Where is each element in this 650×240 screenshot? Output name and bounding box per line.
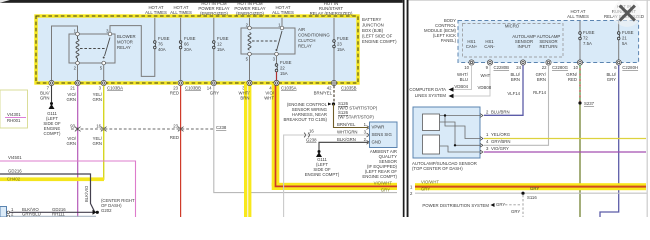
- BJB yellow highlight border (dashed): [36, 16, 358, 83]
- A/C relay switch: [277, 31, 282, 49]
- twisted pair marker G238: [304, 133, 309, 138]
- blower relay pin 3 (top right): [108, 32, 112, 36]
- wire relay pin5 down to C103BA pin 3: [103, 65, 105, 81]
- svg-text:15A: 15A: [217, 47, 225, 52]
- svg-text:GRY: GRY: [421, 187, 430, 192]
- svg-text:FUSE: FUSE: [217, 36, 229, 41]
- wire fuse22 down to row (start of highlighted VIO/WHT): [276, 72, 278, 81]
- ground G202: [93, 210, 97, 215]
- svg-text:WHT: WHT: [264, 96, 274, 101]
- svg-text:5A: 5A: [622, 41, 627, 46]
- dashed GRY branch down from S116: [522, 195, 524, 217]
- svg-text:(TOP CENTER OF DASH): (TOP CENTER OF DASH): [412, 166, 463, 171]
- svg-text:GRN: GRN: [40, 96, 50, 101]
- bottom left connector box: [0, 207, 7, 218]
- svg-text:VI4301: VI4301: [7, 112, 21, 117]
- ambient air quality sensor AAQS box: [370, 122, 398, 148]
- svg-text:WHT/GRN: WHT/GRN: [337, 130, 358, 135]
- svg-text:S237: S237: [584, 101, 595, 106]
- svg-text:VLF14: VLF14: [507, 91, 520, 96]
- fuse 76 40A: [154, 18, 156, 41]
- wire VI4501 pink horizontal then down: [0, 161, 136, 217]
- MICRO sub-box dashed: [463, 24, 564, 58]
- wire BRN/YEL dashed from C1035B pin 42: [333, 86, 335, 103]
- blower relay pin 2 (bottom left): [76, 61, 80, 65]
- sensor pin 1: [480, 137, 483, 141]
- svg-text:76: 76: [158, 42, 163, 47]
- svg-text:RELAY: RELAY: [298, 44, 312, 49]
- A/C relay pin 2 (top coil): [248, 26, 252, 30]
- svg-text:VIO/WHT: VIO/WHT: [421, 179, 439, 184]
- sensor pin 2: [480, 114, 483, 118]
- svg-text:GRY: GRY: [511, 209, 520, 214]
- wire A/C coil bottom to C1035A pin 37? no: pin down: [249, 56, 251, 81]
- svg-text:ENGINE COMPT): ENGINE COMPT): [305, 172, 340, 177]
- svg-text:BLK/GRN: BLK/GRN: [337, 137, 356, 142]
- svg-text:10: 10: [573, 65, 578, 70]
- svg-text:23: 23: [173, 124, 178, 129]
- svg-text:(ENERGIZED): (ENERGIZED): [236, 11, 264, 16]
- connector circles C1035A pins 37/45 over highlight: [247, 80, 279, 85]
- fuse 72 7.5A: [579, 21, 581, 32]
- wire BLK/GRN from AAQS GND to ground: [319, 142, 368, 150]
- svg-text:22: 22: [542, 65, 547, 70]
- wire BRN/YEL from S126 to AAQS VPWR: [334, 104, 369, 128]
- svg-text:VDB04: VDB04: [454, 84, 468, 89]
- svg-text:C103BB: C103BB: [185, 86, 201, 91]
- A/C relay pin 5 (bottom coil): [248, 52, 252, 56]
- right page faint right edge: [647, 0, 648, 217]
- svg-text:G238: G238: [306, 138, 317, 143]
- svg-text:66: 66: [184, 42, 189, 47]
- svg-text:GRY: GRY: [530, 186, 539, 191]
- svg-text:ENGINE COMPT): ENGINE COMPT): [362, 39, 397, 44]
- svg-text:RED: RED: [568, 77, 577, 82]
- svg-text:RETURN: RETURN: [540, 44, 558, 49]
- splice S126: [332, 102, 335, 105]
- svg-text:CLUTCH: CLUTCH: [298, 38, 315, 43]
- left margin component box VI4301/RH001: [0, 90, 28, 128]
- svg-text:VDB08: VDB08: [478, 85, 492, 90]
- right page faint top edge: [409, 0, 650, 1]
- svg-text:COMPUTER DATA: COMPUTER DATA: [409, 87, 446, 92]
- svg-text:GRY: GRY: [210, 91, 219, 96]
- ground G111 (left): [50, 102, 53, 105]
- wire relay pin1 up-left-down to C103BA pin 7: [52, 26, 78, 81]
- svg-text:C2280B: C2280B: [494, 65, 510, 70]
- svg-text:(ENERGIZED): (ENERGIZED): [200, 11, 228, 16]
- svg-text:C2280H: C2280H: [622, 65, 638, 70]
- svg-text:BRN: BRN: [511, 77, 520, 82]
- svg-text:16: 16: [96, 124, 101, 129]
- wire WHT/GRN from AAQS SENS SIG left then down: [284, 135, 368, 217]
- svg-text:GND: GND: [372, 140, 382, 145]
- svg-text:15A: 15A: [337, 47, 345, 52]
- svg-text:CAN+: CAN+: [466, 44, 478, 49]
- wire RED vertical: [180, 86, 182, 217]
- svg-text:21: 21: [622, 36, 627, 41]
- highlighted wire WHT/BRN (yellow band): [244, 83, 251, 217]
- page separator double line: [403, 0, 405, 217]
- svg-text:GRN: GRN: [92, 141, 102, 146]
- svg-text:GRN: GRN: [92, 97, 102, 102]
- sensor pin 3: [480, 150, 483, 154]
- svg-text:GRN: GRN: [66, 141, 76, 146]
- svg-text:VIO/GRY: VIO/GRY: [491, 146, 509, 151]
- body control module BCM box: [458, 21, 639, 63]
- svg-text:BRN/YEL: BRN/YEL: [337, 122, 356, 127]
- svg-text:RELAY (ENERGIZED): RELAY (ENERGIZED): [310, 11, 353, 16]
- svg-text:10: 10: [464, 65, 469, 70]
- svg-text:VIO/WHT: VIO/WHT: [374, 181, 393, 186]
- battery junction box BJB highlighted area (blue fill): [36, 16, 358, 83]
- sensor element lower (photocell): [423, 135, 440, 154]
- highlighted VIO/WHT wire entering from left page: [415, 183, 646, 190]
- svg-text:GRY: GRY: [607, 77, 616, 82]
- svg-text:BLU/BRN: BLU/BRN: [491, 110, 510, 115]
- svg-text:23: 23: [337, 42, 342, 47]
- fuse 23 15A: [333, 18, 335, 40]
- svg-text:FUSE: FUSE: [337, 36, 349, 41]
- svg-text:BLK/VIO: BLK/VIO: [84, 185, 89, 202]
- svg-text:72: 72: [583, 36, 588, 41]
- A/C relay pin 3 (bottom switch): [275, 52, 279, 56]
- bottom connector pin 2 wire GRY/BLU: [7, 215, 97, 217]
- svg-text:JUNCTION: JUNCTION: [362, 23, 384, 28]
- svg-text:COMPT): COMPT): [44, 131, 62, 136]
- A/C clutch relay box: [241, 28, 295, 54]
- svg-text:BLOWER: BLOWER: [117, 34, 136, 39]
- bottom connector pin 1 wire BLK/VIO to G202: [7, 211, 95, 213]
- svg-text:G202: G202: [101, 208, 112, 213]
- wire YEL/ORG horizontal: [484, 138, 646, 140]
- A/C relay actuator dashed link: [252, 40, 278, 42]
- svg-text:BOX (BJB): BOX (BJB): [362, 28, 384, 33]
- close button X: [613, 0, 641, 27]
- svg-text:FUSE: FUSE: [158, 36, 170, 41]
- wire YEL/GRN vertical + turn left: [0, 86, 104, 180]
- A/C relay pin 1 (top switch): [280, 26, 284, 30]
- wire BLU/BRN VLF14 down then left to sensor pin 2: [484, 65, 523, 115]
- blower relay coil: [76, 39, 79, 58]
- highlighted selected wire VIO/WHT (yellow band + red core) down then right: [272, 83, 280, 186]
- wire GD216 BLK/VIO horizontal then down to G202: [0, 174, 95, 212]
- svg-text:(LEFT SIDE OF: (LEFT SIDE OF: [362, 34, 393, 39]
- BCM bottom connector circles: [469, 60, 621, 65]
- blower relay pin 1 (top left): [76, 32, 80, 36]
- wire BLK/GRN pin7 to ground: [51, 86, 53, 102]
- svg-text:FUSE: FUSE: [622, 30, 634, 35]
- svg-text:RED: RED: [170, 91, 179, 96]
- wire VIO/GRY horizontal: [484, 151, 646, 153]
- svg-text:RH001: RH001: [7, 118, 21, 123]
- svg-text:BATTERY: BATTERY: [362, 17, 382, 22]
- svg-text:INPUT: INPUT: [518, 44, 531, 49]
- wire VIO/GRN vertical: [77, 86, 79, 217]
- svg-text:ALL TIMES: ALL TIMES: [272, 10, 294, 15]
- sensor internal wiring: [440, 115, 482, 117]
- svg-text:BLU: BLU: [460, 77, 468, 82]
- wire GRY vertical then right to page edge: [214, 86, 397, 193]
- blower relay switch: [105, 38, 111, 57]
- wire GRY/BRN RLF14 down then left to sensor pin 4: [484, 65, 549, 145]
- fuse 12 15A: [213, 18, 215, 41]
- autolamp/sunload sensor box: [413, 107, 480, 158]
- svg-text:40A: 40A: [158, 47, 166, 52]
- svg-text:20A: 20A: [184, 47, 192, 52]
- top browser bar (left page): [0, 0, 403, 3]
- svg-text:C2280G: C2280G: [552, 65, 569, 70]
- splice S116 on GRY: [521, 192, 524, 195]
- svg-text:BRN/YEL: BRN/YEL: [314, 91, 333, 96]
- wire A/C switch top to feed: [281, 18, 283, 27]
- svg-text:FUSE: FUSE: [280, 60, 292, 65]
- svg-text:22: 22: [280, 66, 285, 71]
- svg-text:VI4501: VI4501: [8, 155, 22, 160]
- svg-text:ENGINE COMPT): ENGINE COMPT): [362, 174, 397, 179]
- svg-text:BRN: BRN: [240, 96, 249, 101]
- svg-text:GRY: GRY: [381, 188, 390, 193]
- svg-text:RED: RED: [170, 135, 179, 140]
- svg-text:FUSE: FUSE: [184, 36, 196, 41]
- svg-text:C1035A: C1035A: [281, 86, 297, 91]
- splice S237: [578, 101, 581, 104]
- svg-text:GRY: GRY: [496, 202, 505, 207]
- svg-text:7.5A: 7.5A: [583, 41, 592, 46]
- svg-text:VPWR: VPWR: [372, 125, 385, 130]
- sensor element upper (photocell): [423, 114, 440, 131]
- svg-text:WHT: WHT: [481, 73, 491, 78]
- wire GRN/RED dashed vertical: [579, 65, 581, 102]
- fuse 22 15A: [275, 64, 278, 67]
- svg-text:AIR: AIR: [298, 27, 305, 32]
- svg-text:CH402: CH402: [7, 177, 21, 182]
- ground G111 (right instance): [318, 150, 321, 153]
- svg-text:16: 16: [309, 129, 314, 134]
- svg-text:12: 12: [217, 42, 222, 47]
- svg-text:15A: 15A: [280, 71, 288, 76]
- svg-text:RELAY: RELAY: [117, 45, 131, 50]
- svg-text:ALL TIMES: ALL TIMES: [145, 10, 167, 15]
- svg-text:BREAKOUT TO C105): BREAKOUT TO C105): [284, 117, 328, 122]
- svg-text:GD216: GD216: [8, 169, 22, 174]
- blower motor relay box: [69, 34, 115, 63]
- svg-text:ALL TIMES: ALL TIMES: [170, 10, 192, 15]
- connector row circles C103BA/C103BB/C1035A/C1035B on bottom border: [49, 80, 337, 85]
- wire GRY horizontal: [415, 192, 647, 194]
- svg-text:(W/ START/STOP): (W/ START/STOP): [338, 115, 374, 120]
- blower relay actuator dashed link: [80, 48, 106, 50]
- wire relay pin2 down to C103BA pin 21: [77, 65, 79, 81]
- svg-text:C238: C238: [216, 125, 227, 130]
- svg-text:CONDITIONING: CONDITIONING: [298, 33, 330, 38]
- svg-text:RH111: RH111: [52, 212, 65, 217]
- wire A/C coil top to feed: [249, 18, 251, 27]
- svg-text:21: 21: [70, 86, 75, 91]
- svg-text:93: 93: [70, 124, 75, 129]
- svg-text:FUSE: FUSE: [583, 30, 595, 35]
- svg-text:YEL/ORG: YEL/ORG: [491, 132, 511, 137]
- svg-text:24: 24: [516, 65, 521, 70]
- wire BLU/GRY vertical with jog at bottom: [600, 65, 619, 217]
- svg-text:MICRO: MICRO: [505, 24, 520, 29]
- svg-text:GRY/BRN: GRY/BRN: [491, 139, 511, 144]
- svg-text:GRY/BLU: GRY/BLU: [22, 212, 41, 217]
- connector C238 dashed inline connector: [71, 128, 213, 130]
- A/C relay coil: [248, 33, 251, 51]
- svg-text:LINES SYSTEM: LINES SYSTEM: [415, 93, 447, 98]
- svg-text:RLF14: RLF14: [533, 90, 547, 95]
- fuse 21 5A: [618, 21, 620, 32]
- blower relay pin 5 (bottom right): [102, 61, 106, 65]
- svg-text:SENS SIG: SENS SIG: [372, 132, 393, 137]
- svg-text:C103BA: C103BA: [107, 86, 123, 91]
- svg-text:CAN-: CAN-: [484, 44, 495, 49]
- computer data lines system arrows: [449, 87, 454, 91]
- svg-text:ALL TIMES: ALL TIMES: [567, 14, 589, 19]
- sensor pin 4: [480, 143, 483, 147]
- wire A/C switch bottom to fuse 22: [276, 56, 278, 64]
- svg-text:GRN: GRN: [66, 97, 76, 102]
- svg-text:BRN: BRN: [537, 77, 546, 82]
- wire relay pin3 up-right-down to fuse 76 output: [110, 26, 155, 77]
- svg-text:S116: S116: [527, 195, 537, 200]
- wire WHT/BLU (VDB04) to computer data lines: [454, 65, 472, 89]
- CH402 highlight band on YEL/GRN horizontal: [0, 177, 104, 181]
- svg-text:C1035B: C1035B: [341, 86, 357, 91]
- svg-text:POWER DISTRIBUTION SYSTEM: POWER DISTRIBUTION SYSTEM: [422, 203, 489, 208]
- svg-text:PANEL): PANEL): [441, 38, 457, 43]
- svg-text:MOTOR: MOTOR: [117, 40, 133, 45]
- fuse 66 20A: [180, 18, 182, 41]
- wire WHT (VDB08) to computer data lines: [454, 65, 491, 96]
